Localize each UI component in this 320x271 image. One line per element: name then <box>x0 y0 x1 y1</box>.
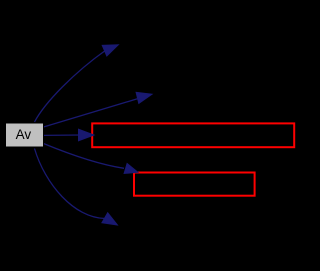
edge 4 curve <box>44 144 125 169</box>
edge 3 arrowhead <box>79 129 95 141</box>
edge 1 curve <box>35 50 107 122</box>
edge 5 arrowhead <box>102 213 118 225</box>
node: small red box <box>134 173 255 196</box>
edge 4 arrowhead <box>124 164 138 174</box>
svg-text:Av: Av <box>16 127 32 142</box>
edge 2 curve <box>44 98 140 127</box>
node Av box <box>6 123 44 147</box>
edge 1 arrowhead <box>102 45 118 56</box>
node: large red box <box>92 123 294 147</box>
edge 5 curve <box>35 149 106 219</box>
edge 3 curve <box>44 134 81 136</box>
edge 2 arrowhead <box>136 92 152 103</box>
